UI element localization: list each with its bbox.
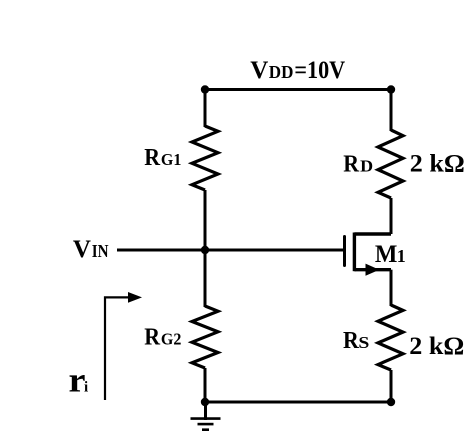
- wire: source lead to RS: [390, 270, 393, 306]
- transistor M1 source connection: [354, 268, 391, 271]
- transistor M1 source arrow: [366, 264, 380, 276]
- transistor M1 gate bar: [343, 237, 346, 266]
- node: bottom right junction: [387, 398, 395, 406]
- svg-text:D: D: [360, 157, 373, 176]
- svg-text:G2: G2: [161, 330, 182, 349]
- wire: RS bottom lead: [390, 370, 393, 402]
- wire: top VDD rail: [205, 88, 391, 91]
- wire: RG1 bottom lead to gate node: [204, 190, 207, 250]
- resistor RS: [378, 305, 403, 370]
- svg-text:R: R: [144, 145, 160, 171]
- svg-text:2 kΩ: 2 kΩ: [409, 333, 464, 360]
- wire: bottom rail: [205, 401, 391, 404]
- svg-text:i: i: [84, 380, 88, 396]
- node: VDD left junction: [201, 85, 209, 93]
- resistor RG1: [192, 126, 218, 190]
- svg-text:IN: IN: [92, 241, 109, 261]
- transistor M1 drain connection: [354, 232, 391, 235]
- node: ground junction: [201, 398, 209, 406]
- svg-text:M: M: [375, 241, 398, 268]
- ground: [191, 402, 221, 430]
- svg-text:1: 1: [397, 246, 406, 266]
- svg-text:r: r: [69, 361, 86, 400]
- wire: RG2 bottom lead: [204, 368, 207, 402]
- wire: RD top lead: [390, 90, 393, 132]
- svg-text:R: R: [343, 152, 359, 178]
- resistor RG2: [192, 306, 218, 368]
- transistor M1: [345, 233, 392, 276]
- svg-text:V: V: [73, 236, 91, 263]
- svg-text:DD: DD: [269, 62, 294, 82]
- node: VDD right junction: [387, 85, 395, 93]
- svg-text:S: S: [358, 333, 369, 352]
- resistor RD: [378, 130, 403, 198]
- node: gate junction: [201, 246, 209, 254]
- svg-text:2 kΩ: 2 kΩ: [410, 151, 465, 178]
- svg-text:=10V: =10V: [294, 57, 345, 84]
- wire: RD bottom lead to drain: [390, 198, 393, 234]
- svg-text:V: V: [250, 57, 268, 84]
- svg-text:R: R: [343, 328, 359, 354]
- ri input-resistance arrow: [105, 292, 142, 400]
- transistor M1 channel bar: [353, 233, 356, 272]
- wire: RG1 top lead: [204, 90, 207, 128]
- wire: VIN input lead: [117, 249, 344, 252]
- svg-text:R: R: [144, 325, 160, 351]
- svg-text:G1: G1: [161, 150, 182, 169]
- wire: RG2 top lead: [204, 250, 207, 307]
